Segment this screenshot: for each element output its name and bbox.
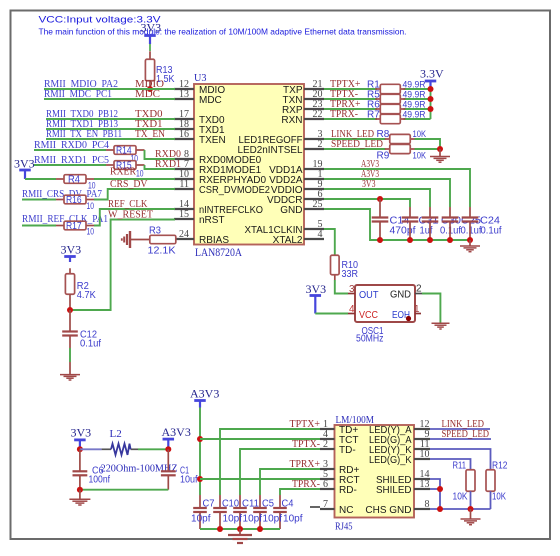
junction TPTX- xyxy=(428,96,434,102)
junction cap rail xyxy=(447,237,453,243)
resistor R14 10 xyxy=(106,149,114,151)
wire SHILED 14 xyxy=(430,479,440,509)
wire REF_CLK jog xyxy=(94,209,175,226)
svg-text:R16: R16 xyxy=(66,195,82,206)
resistor R15 10 xyxy=(106,164,114,166)
svg-text:MDC: MDC xyxy=(135,88,160,100)
junction cap rail xyxy=(407,237,413,243)
wire W_RESET xyxy=(70,220,175,311)
resistor R16 10 xyxy=(56,199,64,201)
svg-text:TPRX-: TPRX- xyxy=(292,478,320,490)
junction MDIO-R13 xyxy=(147,86,153,92)
resistor R8 10K xyxy=(385,138,390,140)
svg-text:3V3: 3V3 xyxy=(306,282,327,296)
junction 3V3 L2 node xyxy=(77,446,83,452)
resistor R13 1.5K xyxy=(149,51,151,59)
resistor R6 49.9R xyxy=(375,108,380,110)
op IC U3 LAN8720A body xyxy=(194,84,304,245)
svg-text:W_RESET: W_RESET xyxy=(108,209,153,221)
capacitor C24 0.1uf xyxy=(469,207,471,218)
RJ45 pin7 stub extra xyxy=(310,506,320,508)
svg-text:TX_EN: TX_EN xyxy=(135,128,165,140)
svg-text:3.3V: 3.3V xyxy=(420,67,444,81)
svg-text:VCC: VCC xyxy=(359,310,378,321)
wire GND pin25 to rail xyxy=(324,209,470,240)
svg-text:33R: 33R xyxy=(342,269,359,280)
U3 right pin stubs xyxy=(304,88,324,90)
svg-text:10pf: 10pf xyxy=(223,514,243,525)
svg-text:49.9R: 49.9R xyxy=(403,110,426,121)
wire MDIO xyxy=(44,88,175,90)
resistor R2 4.7K xyxy=(69,268,71,274)
svg-text:6: 6 xyxy=(323,479,328,490)
svg-text:RJ45: RJ45 xyxy=(335,522,353,533)
junction VDDCR C14 xyxy=(377,196,383,202)
capacitor C1 10uf xyxy=(167,449,169,471)
wire RXD0 jog xyxy=(145,150,176,159)
wire CRS_DV jog xyxy=(94,189,175,200)
wire TPRX- xyxy=(324,118,377,120)
svg-text:R4: R4 xyxy=(68,175,80,186)
wire SPEED_LED xyxy=(324,148,386,150)
junction TPTX+ 3.3V xyxy=(428,86,434,92)
svg-text:LED2nINTSEL: LED2nINTSEL xyxy=(238,145,303,156)
ground filter xyxy=(79,490,81,499)
wire RXD1 jog xyxy=(145,165,176,169)
svg-text:100nf: 100nf xyxy=(89,475,111,486)
wire bottom cap rail xyxy=(200,528,280,530)
svg-text:7: 7 xyxy=(323,499,328,510)
resistor R5 49.9R xyxy=(375,98,380,100)
svg-text:11: 11 xyxy=(179,179,189,190)
resistor R1 49.9R xyxy=(375,88,380,90)
svg-text:nRST: nRST xyxy=(199,215,225,226)
svg-text:10: 10 xyxy=(136,169,144,179)
wire RCT xyxy=(200,478,320,480)
svg-text:0.1uf: 0.1uf xyxy=(461,226,482,237)
svg-text:24: 24 xyxy=(179,229,189,240)
svg-text:10: 10 xyxy=(87,227,95,237)
svg-text:LAN8720A: LAN8720A xyxy=(195,245,242,259)
svg-text:R7: R7 xyxy=(367,110,380,121)
junction LED gnd node xyxy=(437,146,443,152)
wire LED(Y)_K to R12 xyxy=(430,449,491,469)
resistor R7 49.9R xyxy=(375,118,380,120)
wire SHILED 13 xyxy=(430,488,440,490)
ground bottom caps xyxy=(239,529,241,535)
svg-text:3V3: 3V3 xyxy=(61,243,82,257)
svg-text:C4: C4 xyxy=(282,499,294,510)
wire 3V3 to R13 xyxy=(149,44,151,51)
OSC1 pin 3 OUT xyxy=(348,293,355,295)
junction rail C10 xyxy=(217,526,223,532)
capacitor C7 10pf xyxy=(199,495,201,508)
svg-text:25: 25 xyxy=(313,199,323,210)
wire TXD0 xyxy=(46,118,175,120)
resistor R10 33R xyxy=(334,275,336,281)
capacitor C31 1uf xyxy=(409,207,411,218)
wire VDD2A A3V3 xyxy=(324,179,450,207)
svg-text:MDC: MDC xyxy=(199,95,222,106)
svg-text:3: 3 xyxy=(349,284,355,295)
svg-text:13: 13 xyxy=(420,479,430,490)
junction filter gnd xyxy=(77,487,83,493)
svg-text:R12: R12 xyxy=(492,461,508,472)
svg-text:1: 1 xyxy=(414,304,420,315)
svg-text:SPEED_LED: SPEED_LED xyxy=(331,139,383,150)
wire REF_CLK left xyxy=(22,225,56,227)
svg-text:4: 4 xyxy=(349,304,355,315)
svg-text:R17: R17 xyxy=(66,221,82,232)
ground cap bank xyxy=(469,240,471,246)
wire filter ground rail xyxy=(80,489,168,491)
wire LINK_LED RJ45 xyxy=(430,428,490,430)
wire CHS GND row xyxy=(430,508,491,510)
junction rail C11 xyxy=(237,526,243,532)
svg-text:8: 8 xyxy=(425,499,430,510)
svg-text:10K: 10K xyxy=(453,492,468,503)
svg-text:3V3: 3V3 xyxy=(362,178,376,190)
junction TPRX+ xyxy=(428,106,434,112)
inductor L2 220Ohm-100MHZ xyxy=(102,448,111,450)
svg-text:TPRX+: TPRX+ xyxy=(290,458,321,470)
svg-text:RD-: RD- xyxy=(339,485,357,496)
wire 3V3 to VCC xyxy=(315,313,348,315)
svg-text:10K: 10K xyxy=(413,151,427,162)
svg-text:R11: R11 xyxy=(453,461,467,472)
OSC1 pin 1 EOH xyxy=(415,313,421,315)
svg-text:GND: GND xyxy=(280,205,302,216)
svg-text:A3V3: A3V3 xyxy=(190,387,219,401)
ground LED resistors xyxy=(439,149,441,157)
wire VDDIO 3V3 xyxy=(324,189,430,207)
svg-text:RBIAS: RBIAS xyxy=(199,235,229,246)
wire LED(G)_K to R11 xyxy=(430,459,471,469)
capacitor C4 10pf xyxy=(279,495,281,508)
connector RJ45 body xyxy=(335,425,415,518)
ground OSC xyxy=(432,322,450,324)
wire C12 to ground xyxy=(69,348,71,362)
svg-text:2: 2 xyxy=(323,439,328,450)
resistor R3 12.1K xyxy=(130,239,150,241)
oscillator OSC1 50MHz body xyxy=(355,285,415,322)
wire TPRX+ bottom xyxy=(260,469,320,495)
svg-text:16: 16 xyxy=(179,129,189,140)
svg-text:0.1uf: 0.1uf xyxy=(481,226,502,237)
svg-text:The main function of this modu: The main function of this module: the re… xyxy=(39,27,407,37)
svg-text:C7: C7 xyxy=(203,499,215,510)
svg-text:3V3: 3V3 xyxy=(141,21,162,35)
capacitor C25 0.1uf xyxy=(449,207,451,218)
wire L2 to A3V3 xyxy=(138,448,168,450)
svg-text:220Ohm-100MHZ: 220Ohm-100MHZ xyxy=(101,464,178,475)
svg-text:15: 15 xyxy=(179,209,189,220)
junction nRST node xyxy=(67,307,73,313)
svg-text:C11: C11 xyxy=(242,499,259,510)
RJ45 left pin stubs xyxy=(320,428,335,430)
svg-text:RXN: RXN xyxy=(281,115,302,126)
resistor R4 10 xyxy=(56,178,64,180)
svg-text:3V3: 3V3 xyxy=(71,426,92,440)
svg-text:RXER: RXER xyxy=(110,166,137,178)
wire LINK_LED right xyxy=(415,139,441,149)
svg-text:10: 10 xyxy=(420,449,430,460)
svg-text:2: 2 xyxy=(416,284,422,295)
ground C12 xyxy=(69,362,71,374)
wire TPTX+ bottom xyxy=(220,429,320,495)
capacitor C30 0.1uf xyxy=(429,207,431,218)
OSC1 pin 2 GND xyxy=(415,293,422,295)
capacitor C14 470pf xyxy=(379,199,381,218)
svg-text:2: 2 xyxy=(318,139,323,150)
wire RXD0 left xyxy=(34,149,106,151)
svg-text:NC: NC xyxy=(339,505,353,516)
svg-text:R3: R3 xyxy=(149,226,161,237)
capacitor C5 10pf xyxy=(259,495,261,508)
wire R11 bottom xyxy=(470,491,472,509)
svg-text:10uf: 10uf xyxy=(180,475,198,486)
svg-text:10pf: 10pf xyxy=(191,514,211,525)
wire A3V3 column xyxy=(199,408,201,496)
svg-text:C5: C5 xyxy=(262,499,274,510)
wire TX_EN xyxy=(46,138,175,140)
svg-text:CRS_DV: CRS_DV xyxy=(110,178,148,190)
svg-text:RMII_CRS_DV_PA7: RMII_CRS_DV_PA7 xyxy=(22,189,102,200)
svg-text:SPEED_LED: SPEED_LED xyxy=(442,429,490,440)
wire SPEED_LED right xyxy=(415,148,441,150)
svg-text:XTAL2: XTAL2 xyxy=(273,235,303,246)
wire TPTX+ xyxy=(324,88,377,90)
svg-text:10K: 10K xyxy=(492,492,506,503)
U3 left pin stubs xyxy=(174,88,194,90)
svg-text:TPTX-: TPTX- xyxy=(292,438,320,450)
svg-text:3V3: 3V3 xyxy=(14,157,35,171)
wire XTAL1CLKIN xyxy=(324,229,335,255)
svg-text:TXEN: TXEN xyxy=(199,135,226,146)
wire TCT xyxy=(200,438,320,440)
svg-text:TPTX+: TPTX+ xyxy=(290,418,321,430)
svg-text:12.1K: 12.1K xyxy=(148,246,176,257)
RJ45 right pin stubs xyxy=(414,428,430,430)
junction RCT xyxy=(197,476,203,482)
svg-text:SHILED: SHILED xyxy=(376,485,412,496)
svg-text:22: 22 xyxy=(313,109,323,120)
capacitor C11 10pf xyxy=(239,495,241,508)
junction shield 13 xyxy=(437,486,443,492)
svg-text:10pf: 10pf xyxy=(263,514,283,525)
resistor R17 10 xyxy=(56,225,64,227)
ground RBIAS sideways xyxy=(129,231,131,248)
capacitor C10 10pf xyxy=(219,495,221,508)
svg-text:10pf: 10pf xyxy=(243,514,263,525)
junction TCT xyxy=(197,436,203,442)
wire RXD1 left xyxy=(34,164,106,166)
svg-text:RXD1: RXD1 xyxy=(155,158,181,170)
svg-text:TD-: TD- xyxy=(339,445,356,456)
junction cap rail xyxy=(467,237,473,243)
svg-text:U3: U3 xyxy=(194,72,207,84)
junction shield gnd xyxy=(437,506,443,512)
wire TPTX- xyxy=(324,98,377,100)
wire R10 to OSC OUT xyxy=(335,280,348,294)
resistor R11 10K xyxy=(466,470,475,492)
ground RJ45 xyxy=(470,509,472,519)
junction rail C5 xyxy=(257,526,263,532)
wire VDD1A A3V3 xyxy=(324,169,470,207)
svg-text:13: 13 xyxy=(179,89,189,100)
svg-text:C10: C10 xyxy=(222,499,239,510)
wire TXD1 xyxy=(46,128,175,130)
resistor R12 10K xyxy=(486,470,495,492)
junction cap rail xyxy=(377,237,383,243)
svg-text:10: 10 xyxy=(87,201,95,211)
svg-text:A3V3: A3V3 xyxy=(162,425,191,439)
svg-text:0.1uf: 0.1uf xyxy=(80,339,101,350)
svg-text:CSR_DVMODE2: CSR_DVMODE2 xyxy=(199,185,270,196)
junction A3V3 C1 node xyxy=(165,446,171,452)
wire SPEED_LED RJ45 xyxy=(430,438,491,440)
svg-text:OUT: OUT xyxy=(359,290,379,301)
svg-text:CHS GND: CHS GND xyxy=(365,505,411,516)
wire MDC xyxy=(44,98,175,100)
svg-text:4.7K: 4.7K xyxy=(77,290,96,301)
wire RXER left xyxy=(25,178,56,180)
svg-text:TPRX-: TPRX- xyxy=(330,108,358,120)
wire TPRX+ xyxy=(324,108,377,110)
wire LINK_LED xyxy=(324,138,386,140)
wire OSC GND xyxy=(422,294,440,324)
svg-text:L2: L2 xyxy=(110,428,122,440)
wire R12 bottom xyxy=(490,491,492,509)
junction R11 gnd xyxy=(468,506,474,512)
junction cap rail xyxy=(427,237,433,243)
OSC1 pin 4 VCC xyxy=(348,313,355,315)
wire CRS_DV left xyxy=(22,199,56,201)
svg-text:470pf: 470pf xyxy=(390,226,416,237)
wire 3V3 to L2 blue xyxy=(80,448,102,450)
resistor R9 10K xyxy=(385,148,390,150)
wire TPTX collector xyxy=(430,89,432,119)
capacitor C12 0.1uf xyxy=(69,310,71,332)
svg-text:50MHz: 50MHz xyxy=(356,334,384,345)
capacitor C6 100nf xyxy=(79,449,81,471)
svg-text:10pf: 10pf xyxy=(283,514,303,525)
svg-text:LED(G)_K: LED(G)_K xyxy=(369,455,412,466)
wire RXER xyxy=(94,178,175,180)
wire TPRX- bottom xyxy=(280,489,320,495)
wire VDDCR xyxy=(324,199,410,207)
svg-text:GND: GND xyxy=(390,290,411,301)
svg-text:4: 4 xyxy=(318,229,323,240)
wire TPTX- bottom xyxy=(240,449,320,495)
